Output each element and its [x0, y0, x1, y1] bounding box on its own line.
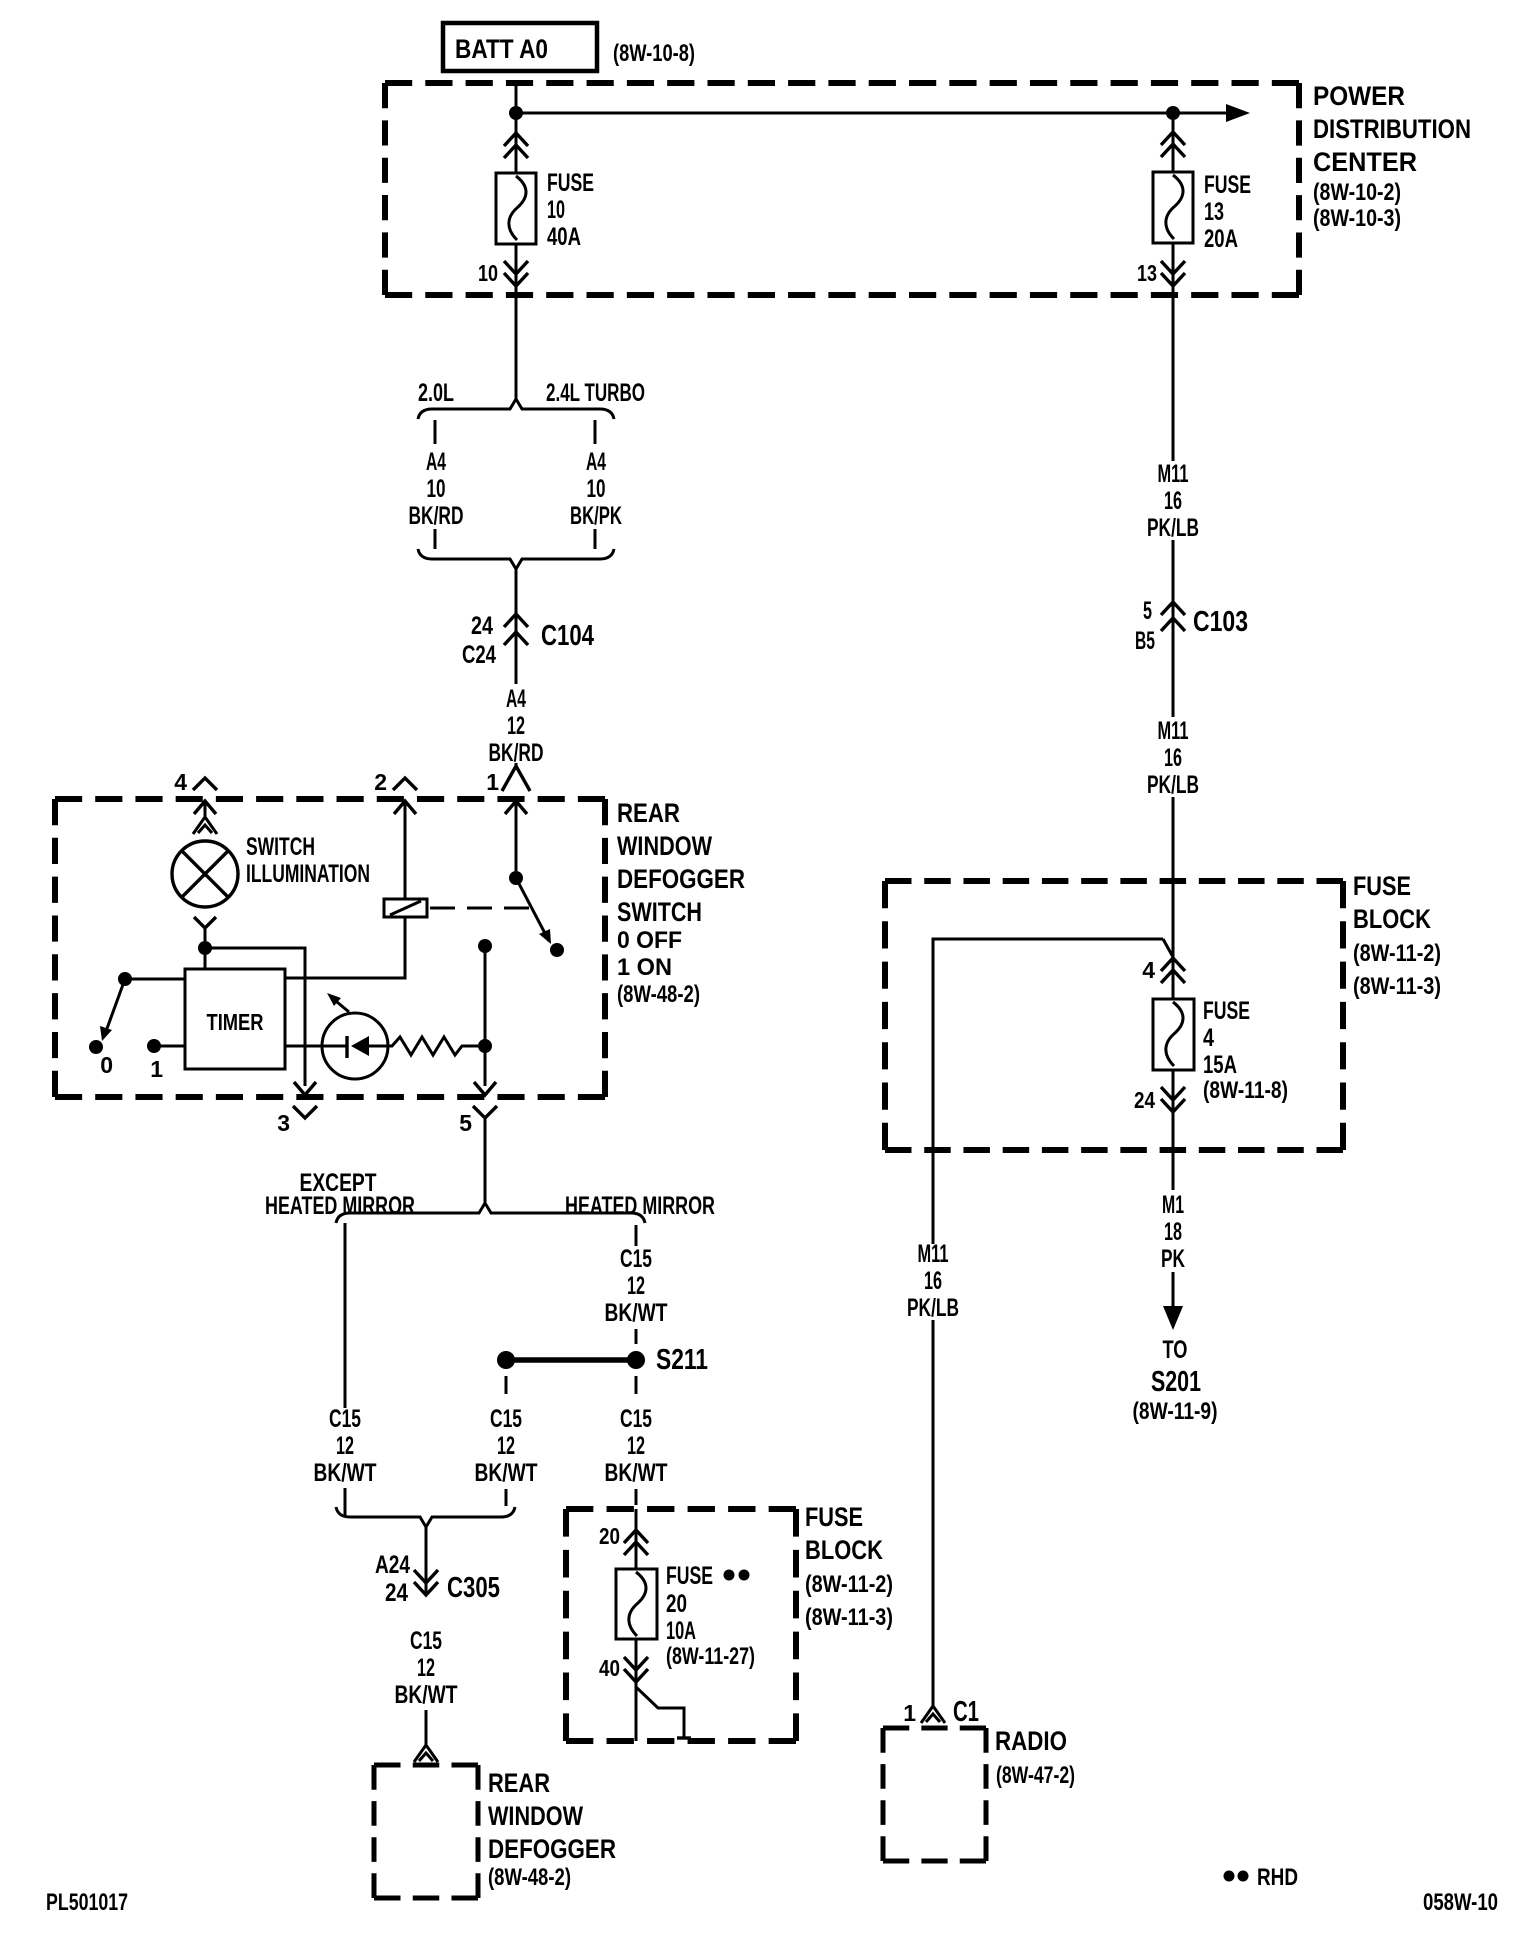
- svg-text:0: 0: [100, 1052, 113, 1078]
- wire to S201: [1172, 1272, 1175, 1308]
- svg-text:SWITCH: SWITCH: [246, 833, 315, 861]
- svg-text:M1: M1: [1162, 1191, 1184, 1219]
- wire pin 10 down: [515, 295, 518, 399]
- svg-text:18: 18: [1164, 1218, 1182, 1246]
- svg-text:4: 4: [174, 769, 187, 795]
- svg-text:(8W-11-2): (8W-11-2): [1353, 940, 1441, 967]
- svg-text:A4: A4: [426, 448, 446, 476]
- pin 4 chevrons: [1161, 958, 1185, 971]
- svg-text:M11: M11: [1158, 717, 1189, 745]
- svg-text:058W-10: 058W-10: [1423, 1889, 1498, 1916]
- svg-text:12: 12: [627, 1432, 645, 1460]
- svg-text:24: 24: [471, 612, 493, 640]
- svg-text:PL501017: PL501017: [46, 1889, 128, 1916]
- wire fuse 13 to pin 13: [1172, 243, 1175, 295]
- svg-text:C24: C24: [462, 641, 496, 669]
- branch split 2.0L / 2.4L TURBO: [418, 399, 614, 419]
- fuse 13 20A: [1153, 172, 1193, 243]
- wire contact 1 to timer: [154, 1045, 185, 1048]
- svg-text:BK/WT: BK/WT: [475, 1459, 538, 1487]
- wire bus A0: [516, 112, 1236, 115]
- node contact 0: [89, 1040, 103, 1054]
- pin 4 stem: [204, 801, 207, 818]
- svg-text:20: 20: [599, 1523, 620, 1549]
- svg-text:ILLUMINATION: ILLUMINATION: [246, 860, 370, 888]
- switch arm 1: [516, 878, 549, 941]
- wire heated mirror branch dashed: [635, 1225, 638, 1246]
- wire branch to radio feed: [933, 939, 1163, 1244]
- wire C103 to fuse block: [1172, 797, 1175, 999]
- svg-text:S211: S211: [656, 1344, 708, 1376]
- svg-text:BK/PK: BK/PK: [570, 502, 622, 530]
- LED indicator: [322, 993, 388, 1079]
- lamp lower connector: [194, 917, 216, 928]
- wire junction to pin 5: [484, 946, 487, 1086]
- wire fuse 4 to pin 24: [1172, 1070, 1175, 1190]
- svg-text:REAR: REAR: [488, 1768, 550, 1798]
- svg-text:HEATED MIRROR: HEATED MIRROR: [265, 1192, 415, 1220]
- svg-text:BLOCK: BLOCK: [805, 1535, 883, 1565]
- connector chevrons fuse 13 top: [1161, 132, 1185, 145]
- svg-text:TO: TO: [1163, 1336, 1188, 1364]
- power distribution center box: [385, 80, 1299, 86]
- pin 4 connector: [193, 778, 217, 790]
- svg-text:FUSE: FUSE: [1203, 997, 1250, 1025]
- svg-text:DISTRIBUTION: DISTRIBUTION: [1313, 114, 1471, 144]
- svg-text:5: 5: [459, 1110, 472, 1136]
- svg-text:BK/RD: BK/RD: [409, 502, 464, 530]
- arrow to S201: [1163, 1306, 1183, 1330]
- svg-text:(8W-10-8): (8W-10-8): [613, 40, 695, 67]
- svg-text:BATT A0: BATT A0: [455, 34, 548, 64]
- svg-text:C15: C15: [410, 1627, 442, 1655]
- svg-text:M11: M11: [1158, 460, 1189, 488]
- branch merge to C305: [336, 1507, 515, 1527]
- wire lamp to timer: [204, 948, 207, 969]
- svg-text:(8W-10-3): (8W-10-3): [1313, 205, 1401, 232]
- svg-text:A4: A4: [506, 685, 526, 713]
- svg-text:2: 2: [374, 769, 387, 795]
- svg-text:16: 16: [924, 1267, 942, 1295]
- svg-text:3: 3: [277, 1110, 290, 1136]
- svg-text:FUSE: FUSE: [666, 1562, 713, 1590]
- svg-text:13: 13: [1204, 198, 1224, 226]
- rear window defogger connector: [414, 1745, 438, 1762]
- lamp switch illumination: [172, 841, 238, 907]
- mechanical link dashes: [430, 907, 530, 910]
- svg-text:1 ON: 1 ON: [617, 954, 672, 981]
- svg-text:13: 13: [1137, 260, 1157, 286]
- node junction at fuse 13: [1166, 106, 1180, 120]
- svg-text:(8W-11-3): (8W-11-3): [805, 1604, 893, 1631]
- svg-text:(8W-11-27): (8W-11-27): [666, 1643, 755, 1670]
- svg-text:BLOCK: BLOCK: [1353, 904, 1431, 934]
- wire merge to C104: [515, 569, 518, 684]
- svg-text:12: 12: [417, 1654, 435, 1682]
- svg-text:RHD: RHD: [1257, 1864, 1298, 1891]
- svg-text:16: 16: [1164, 744, 1182, 772]
- fuse 10 40A: [496, 173, 536, 244]
- svg-text:1: 1: [486, 769, 499, 795]
- pin 24 chevrons: [1161, 1099, 1185, 1112]
- wire into fuse 13: [1172, 113, 1175, 172]
- svg-text:12: 12: [627, 1272, 645, 1300]
- svg-text:C305: C305: [447, 1572, 500, 1604]
- wire jog to fuse 4: [1163, 939, 1173, 957]
- svg-text:40: 40: [599, 1655, 620, 1681]
- svg-text:C15: C15: [620, 1405, 652, 1433]
- wire pin 20 into fuse 20: [635, 1509, 638, 1569]
- fuse 20 10A: [616, 1569, 657, 1639]
- svg-text:(8W-48-2): (8W-48-2): [488, 1864, 571, 1891]
- svg-text:12: 12: [497, 1432, 515, 1460]
- switch arm 1 pivot: [509, 871, 523, 885]
- svg-text:FUSE: FUSE: [1353, 871, 1411, 901]
- wire S211 left leg dashed: [505, 1376, 508, 1394]
- svg-text:BK/WT: BK/WT: [395, 1681, 458, 1709]
- svg-text:C103: C103: [1193, 606, 1248, 638]
- branch split heated mirror: [336, 1203, 645, 1223]
- wire merge to C305: [425, 1527, 428, 1595]
- node lamp junction: [198, 941, 212, 955]
- node contact on position 1: [550, 943, 564, 957]
- svg-text:20A: 20A: [1204, 225, 1238, 253]
- fuse block box lower: [566, 1506, 796, 1512]
- svg-text:BK/WT: BK/WT: [314, 1459, 377, 1487]
- svg-text:WINDOW: WINDOW: [617, 831, 712, 861]
- label RHD legend: [1224, 1871, 1235, 1882]
- svg-text:B5: B5: [1135, 627, 1155, 655]
- svg-text:WINDOW: WINDOW: [488, 1801, 583, 1831]
- wire fuse 20 to pin 40: [635, 1639, 638, 1741]
- svg-text:DEFOGGER: DEFOGGER: [488, 1834, 616, 1864]
- svg-text:16: 16: [1164, 487, 1182, 515]
- svg-text:(8W-47-2): (8W-47-2): [996, 1762, 1075, 1789]
- wire dashed to S211: [635, 1329, 638, 1344]
- wire BATT to bus: [515, 83, 518, 113]
- svg-text:FUSE: FUSE: [547, 169, 594, 197]
- svg-text:TIMER: TIMER: [207, 1009, 264, 1035]
- wire timer to LED: [285, 1045, 322, 1048]
- svg-text:RADIO: RADIO: [995, 1726, 1067, 1756]
- svg-text:REAR: REAR: [617, 798, 680, 828]
- wire pin 2 to relay coil: [404, 801, 407, 899]
- pin 1 connector: [502, 766, 530, 791]
- svg-text:SWITCH: SWITCH: [617, 897, 702, 927]
- svg-text:PK: PK: [1161, 1245, 1185, 1273]
- wire middle branch to merge dashed: [505, 1489, 508, 1506]
- svg-text:10A: 10A: [666, 1617, 696, 1645]
- node pin 5 junction: [478, 939, 492, 953]
- svg-text:S201: S201: [1151, 1366, 1201, 1398]
- svg-text:10: 10: [427, 475, 446, 503]
- wire left branch to merge: [344, 1488, 347, 1517]
- pin 10 chevrons: [504, 273, 528, 286]
- svg-text:PK/LB: PK/LB: [1147, 771, 1199, 799]
- wire fuse 10 to pin 10: [515, 244, 518, 295]
- svg-text:FUSE: FUSE: [1204, 171, 1251, 199]
- connector C305 chevrons: [414, 1582, 438, 1595]
- node contact 1: [147, 1039, 161, 1053]
- svg-text:4: 4: [1203, 1024, 1214, 1052]
- svg-text:15A: 15A: [1203, 1051, 1237, 1079]
- wire stub to merge left: [434, 529, 437, 549]
- wire to switch pin 1: [515, 763, 518, 770]
- svg-text:40A: 40A: [547, 223, 581, 251]
- svg-text:20: 20: [666, 1590, 687, 1618]
- svg-text:(8W-11-2): (8W-11-2): [805, 1571, 893, 1598]
- wire to fuse block pin 20 dashed: [635, 1489, 638, 1505]
- wire pin 40 jog: [636, 1687, 684, 1737]
- pin 13 chevrons: [1161, 273, 1185, 286]
- switch arm 0: [105, 979, 125, 1034]
- svg-text:PK/LB: PK/LB: [907, 1294, 959, 1322]
- svg-text:C1: C1: [953, 1696, 979, 1728]
- wire coil to timer: [285, 917, 405, 978]
- svg-text:(8W-11-9): (8W-11-9): [1133, 1398, 1218, 1425]
- switch arm 0 pivot: [118, 972, 132, 986]
- svg-text:BK/WT: BK/WT: [605, 1299, 668, 1327]
- pin 2 connector: [393, 778, 417, 790]
- svg-text:A4: A4: [586, 448, 606, 476]
- svg-text:M11: M11: [918, 1240, 949, 1268]
- svg-text:12: 12: [336, 1432, 354, 1460]
- svg-text:POWER: POWER: [1313, 81, 1405, 111]
- wire stub 2.4L branch: [594, 420, 597, 444]
- wire pin 1 into box: [515, 801, 518, 871]
- wire C305 to rear defogger: [425, 1710, 428, 1745]
- wire stub 2.0L branch: [434, 420, 437, 444]
- svg-text:C104: C104: [541, 620, 594, 652]
- resistor R1: [388, 1037, 478, 1055]
- wire pin 5 down: [484, 1118, 487, 1203]
- wire S211 right leg dashed: [635, 1376, 638, 1394]
- wire radio feed lower: [932, 1320, 935, 1706]
- wire stub to merge right: [594, 529, 597, 549]
- node resistor to pin 5 wire: [478, 1039, 492, 1053]
- svg-text:C15: C15: [620, 1245, 652, 1273]
- wire except-heated-mirror branch: [344, 1223, 347, 1408]
- pin 3 connector: [294, 1082, 316, 1095]
- relay coil K1: [384, 899, 427, 917]
- svg-text:4: 4: [1142, 957, 1155, 983]
- wire pin 13 down: [1172, 295, 1175, 461]
- wire into fuse 10: [515, 113, 518, 173]
- branch merge to C104: [418, 549, 614, 569]
- svg-text:CENTER: CENTER: [1313, 147, 1417, 177]
- svg-text:1: 1: [150, 1056, 163, 1082]
- svg-text:1: 1: [903, 1700, 916, 1726]
- connector C103 chevrons: [1161, 602, 1185, 615]
- svg-text:A24: A24: [375, 1551, 410, 1579]
- svg-text:10: 10: [547, 196, 565, 224]
- svg-text:(8W-10-2): (8W-10-2): [1313, 179, 1401, 206]
- connector C104 chevrons: [504, 614, 528, 627]
- node junction at fuse 10: [509, 106, 523, 120]
- splice S211: [497, 1351, 645, 1369]
- svg-text:C15: C15: [329, 1405, 361, 1433]
- svg-text:24: 24: [385, 1579, 408, 1607]
- svg-text:10: 10: [587, 475, 606, 503]
- svg-text:FUSE: FUSE: [805, 1502, 863, 1532]
- timer U1: [185, 969, 285, 1069]
- node BATT A0 feed box: [443, 23, 597, 71]
- svg-text:C15: C15: [490, 1405, 522, 1433]
- svg-text:(8W-48-2): (8W-48-2): [617, 981, 700, 1008]
- svg-text:PK/LB: PK/LB: [1147, 514, 1199, 542]
- svg-text:24: 24: [1134, 1087, 1155, 1113]
- svg-text:12: 12: [507, 712, 525, 740]
- svg-text:BK/WT: BK/WT: [605, 1459, 668, 1487]
- svg-text:2.0L: 2.0L: [418, 379, 454, 407]
- pin 20 chevrons: [624, 1530, 648, 1543]
- svg-text:5: 5: [1143, 597, 1152, 625]
- rear window defogger switch box: [55, 796, 605, 802]
- svg-text:2.4L TURBO: 2.4L TURBO: [546, 379, 645, 407]
- svg-text:10: 10: [478, 260, 498, 286]
- svg-text:(8W-11-3): (8W-11-3): [1353, 973, 1441, 1000]
- radio box: [883, 1726, 986, 1731]
- svg-text:0 OFF: 0 OFF: [617, 927, 682, 954]
- pin 40 chevrons: [624, 1669, 648, 1682]
- radio connector C1: [921, 1706, 945, 1723]
- wire junction to pin 3 column: [205, 948, 305, 1086]
- wire to C103: [1172, 540, 1175, 717]
- svg-text:DEFOGGER: DEFOGGER: [617, 864, 745, 894]
- svg-text:(8W-11-8): (8W-11-8): [1203, 1077, 1288, 1104]
- connector chevrons fuse 10 top: [504, 133, 528, 146]
- rear window defogger box: [374, 1763, 478, 1768]
- pin 5 connector: [474, 1082, 496, 1095]
- fuse 4 15A: [1153, 999, 1194, 1070]
- bus arrowhead: [1226, 104, 1250, 122]
- wire pivot to timer: [125, 978, 185, 981]
- fuse block box right: [885, 878, 1343, 884]
- svg-text:HEATED MIRROR: HEATED MIRROR: [565, 1192, 715, 1220]
